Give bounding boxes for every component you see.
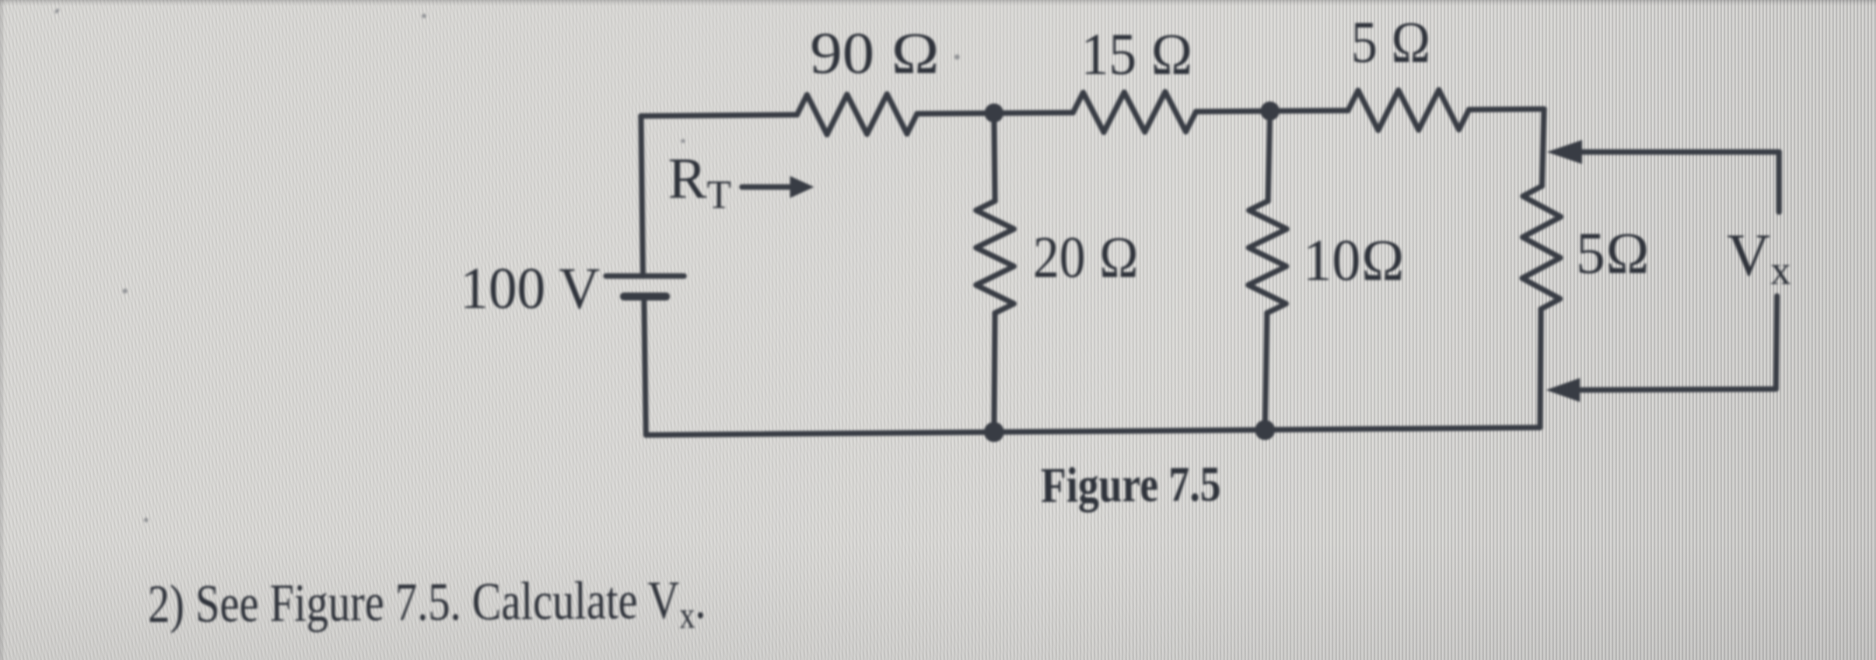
resistor R4 20 ohm (shunt) [976,201,1014,313]
Vx probe top arrowhead [1547,140,1582,164]
svg-text:2) See Figure 7.5. Calculate V: 2) See Figure 7.5. Calculate Vx. [148,570,707,641]
resistor R5 10 ohm (shunt) [1248,201,1287,313]
node A junction dot (top, after R1) [985,104,1004,123]
wire left vertical from battery down to bottom-left corner [644,297,646,435]
resistor R6 5 ohm (right shunt) [1522,186,1561,309]
resistor R3 5 ohm (top right) [1348,90,1469,131]
Vx probe right vertical lower part [1776,296,1777,388]
node B junction dot (top, after R2) [1261,102,1280,121]
bottom junction dot under node A [984,422,1004,442]
wire branch 2 lead from node B down to R5 [1268,111,1270,201]
wire left vertical from top-left corner down to battery [641,116,643,276]
svg-text:15 Ω: 15 Ω [1081,21,1193,87]
wire right vertical from top-right corner down to R6 [1542,109,1544,186]
resistor R2 15 ohm (top middle) [1073,92,1196,133]
svg-text:20 Ω: 20 Ω [1033,224,1139,290]
RT arrow shaft [742,184,798,190]
resistor R1 90 ohm (top left) [797,94,917,135]
svg-text:RT: RT [668,146,731,217]
battery V1 negative plate (short) [624,293,666,301]
svg-text:100 V: 100 V [460,255,600,321]
svg-text:5 Ω: 5 Ω [1351,9,1431,75]
RT arrowhead [790,176,814,198]
wire top segment from source to R1 [641,115,797,116]
svg-text:10Ω: 10Ω [1303,227,1405,293]
svg-text:90 Ω: 90 Ω [810,20,940,86]
bottom junction dot under node B [1255,420,1275,440]
Vx probe bottom arrowhead [1546,378,1580,402]
battery V1 positive plate (long) [606,273,684,279]
wire branch 1 lead from node A down to R4 [994,113,995,201]
wire top segment R1 to node A [917,113,1073,114]
Vx probe right vertical upper part [1776,152,1782,212]
Vx probe top line [1581,149,1779,155]
svg-text:Vx: Vx [1727,222,1791,293]
Vx probe bottom line [1581,389,1776,390]
wire right vertical from R6 down to bottom-right corner [1540,309,1541,428]
svg-text:Figure 7.5: Figure 7.5 [1041,455,1221,513]
wire bottom from bottom-left corner to bottom-right corner [646,428,1540,436]
wire top segment R3 to top-right corner [1469,106,1544,112]
wire top segment node B to R3 [1196,111,1348,112]
wire branch 2 lead from R5 down to bottom node [1265,313,1267,430]
wire branch 1 lead from R4 down to bottom node [994,313,995,432]
svg-text:5Ω: 5Ω [1576,220,1650,286]
